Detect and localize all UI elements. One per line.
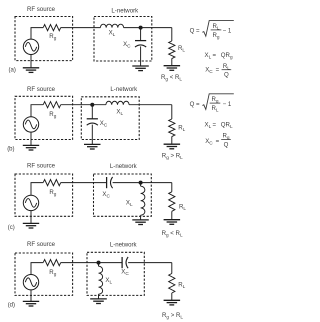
ground RL (a) — [164, 66, 181, 71]
equation XC (a) — [205, 63, 231, 79]
svg-text:Rg > RL: Rg > RL — [162, 312, 183, 320]
wire RL to ground (b) — [171, 137, 173, 145]
svg-text:(d): (d) — [8, 303, 15, 309]
AC source V (a) — [23, 39, 38, 54]
capacitor XC (b) — [87, 119, 98, 125]
wire node to XL (d) — [98, 263, 100, 267]
svg-text:Rg: Rg — [212, 32, 219, 40]
svg-text:Q =: Q = — [190, 28, 200, 35]
wire Rg to XC (c) — [61, 182, 107, 184]
wire node to XL (c) — [140, 183, 142, 187]
L-network box (d) — [87, 252, 144, 295]
svg-text:− 1: − 1 — [223, 101, 232, 108]
equation XC (b) — [205, 133, 231, 149]
wire down to RL (c) — [171, 183, 173, 192]
svg-text:XC: XC — [205, 67, 213, 75]
AC source V (b) — [23, 117, 38, 132]
wire source to Rg (b) — [31, 105, 43, 117]
svg-text:Rg: Rg — [49, 189, 56, 197]
svg-text:XL: XL — [109, 30, 116, 38]
svg-text:XL: XL — [205, 121, 212, 129]
svg-text:XC: XC — [121, 269, 129, 277]
ground RL (b) — [164, 144, 181, 149]
svg-text:XC: XC — [205, 138, 213, 146]
svg-text:Rg: Rg — [49, 33, 56, 41]
wire node to XC (b) — [91, 105, 93, 119]
svg-text:RL: RL — [178, 45, 185, 53]
ground RL (c) — [164, 220, 181, 225]
wire source to ground (d) — [30, 290, 32, 302]
resistor RL (a) — [169, 41, 175, 59]
wire XC to load (c) — [113, 182, 172, 184]
resistor RL (d) — [169, 274, 175, 293]
capacitor XC (c) — [107, 177, 113, 188]
wire down to RL (a) — [171, 28, 173, 41]
ground source (a) — [23, 68, 39, 73]
ground RL (d) — [164, 300, 181, 305]
wire XC to load (d) — [128, 262, 172, 264]
node junction (b) — [90, 103, 94, 107]
equation Q (b) — [190, 94, 234, 113]
RF source box (a) — [15, 17, 73, 61]
svg-text:(b): (b) — [7, 147, 14, 153]
equation XL (b) — [205, 121, 233, 129]
svg-text:Rg < RL: Rg < RL — [161, 74, 182, 82]
wire XC to ground (b) — [91, 125, 93, 145]
resistor RL (b) — [169, 119, 175, 137]
node junction (c) — [139, 181, 143, 185]
wire down to RL (b) — [171, 105, 173, 119]
svg-text:Rg: Rg — [222, 133, 229, 141]
RF source box (d) — [15, 253, 73, 295]
node junction (a) — [139, 26, 143, 30]
AC source V (d) — [23, 275, 38, 290]
svg-text:RF source: RF source — [27, 163, 56, 170]
svg-text:XC: XC — [123, 41, 131, 49]
ground XC (a) — [132, 66, 149, 71]
L-network box (c) — [94, 174, 152, 216]
svg-text:− 1: − 1 — [223, 28, 232, 35]
resistor Rg (d) — [43, 260, 61, 266]
capacitor XC (d) — [122, 257, 128, 268]
svg-text:XL: XL — [205, 52, 212, 60]
svg-text:=: = — [216, 138, 220, 145]
inductor XL (c) — [141, 186, 145, 215]
svg-text:Rg: Rg — [49, 111, 56, 119]
svg-text:RF source: RF source — [27, 241, 56, 248]
ground source (b) — [23, 145, 39, 150]
wire Rg to node (b) — [61, 104, 106, 106]
svg-text:XL: XL — [105, 277, 112, 285]
resistor Rg (b) — [43, 102, 61, 108]
svg-text:L-network: L-network — [110, 86, 138, 93]
svg-text:Rg: Rg — [49, 269, 56, 277]
wire source to Rg (d) — [31, 263, 43, 275]
svg-text:RL: RL — [212, 23, 219, 31]
svg-text:=: = — [213, 121, 217, 128]
wire XL to load (a) — [124, 27, 172, 29]
RF source box (b) — [15, 96, 73, 139]
resistor Rg (c) — [43, 180, 61, 186]
ground source (d) — [23, 301, 39, 306]
equation XL (a) — [205, 52, 233, 60]
inductor XL (d) — [99, 266, 103, 294]
wire RL to ground (a) — [171, 59, 173, 66]
wire Rg to XC (d) — [61, 262, 122, 264]
wire down to RL (d) — [171, 263, 173, 274]
svg-text:RF source: RF source — [27, 86, 56, 93]
wire source to ground (c) — [30, 211, 32, 224]
svg-text:Rg < RL: Rg < RL — [162, 230, 183, 238]
svg-text:XL: XL — [116, 108, 123, 116]
svg-text:RF source: RF source — [27, 6, 56, 13]
ground XL (d) — [90, 299, 107, 304]
ground XC (b) — [84, 144, 101, 149]
svg-text:XC: XC — [102, 191, 110, 199]
svg-text:(a): (a) — [9, 68, 16, 74]
svg-text:RL: RL — [179, 204, 186, 212]
svg-text:RL: RL — [223, 63, 230, 71]
wire XL to load (b) — [129, 104, 172, 106]
wire source to Rg (a) — [31, 28, 43, 39]
AC source V (c) — [23, 195, 38, 210]
svg-text:RL: RL — [178, 125, 185, 133]
ground XL (c) — [132, 220, 149, 225]
L-network box (a) — [94, 17, 152, 62]
wire source to Rg (c) — [31, 183, 43, 196]
wire source to ground (b) — [30, 132, 32, 145]
svg-text:L-network: L-network — [111, 8, 139, 15]
inductor XL (b) — [106, 101, 129, 104]
inductor XL (a) — [100, 24, 123, 27]
svg-text:(c): (c) — [8, 225, 15, 231]
node junction (d) — [97, 261, 101, 265]
svg-text:XC: XC — [100, 120, 108, 128]
wire node to XC (a) — [140, 28, 142, 41]
RF source box (c) — [15, 174, 73, 216]
resistor Rg (a) — [43, 25, 61, 31]
wire XC to ground (a) — [140, 46, 142, 66]
svg-text:Q: Q — [224, 142, 229, 149]
wire source to ground (a) — [30, 55, 32, 68]
svg-text:RL: RL — [211, 105, 218, 113]
svg-text:RL: RL — [178, 282, 185, 290]
wire Rg to XL (a) — [61, 27, 101, 29]
svg-text:=: = — [216, 67, 220, 74]
svg-text:Q: Q — [224, 72, 229, 79]
svg-text:=: = — [213, 52, 217, 59]
svg-text:QRg: QRg — [221, 52, 233, 60]
svg-text:Rg > RL: Rg > RL — [162, 152, 183, 160]
svg-text:QRL: QRL — [221, 121, 233, 129]
equation Q (a) — [190, 21, 234, 40]
L-network box (b) — [81, 97, 139, 140]
wire XL to ground (c) — [140, 215, 142, 220]
ground source (c) — [23, 223, 39, 228]
wire RL to ground (c) — [171, 211, 173, 219]
svg-text:Q =: Q = — [190, 101, 200, 108]
resistor RL (c) — [169, 192, 175, 211]
svg-text:Rg: Rg — [211, 96, 218, 104]
svg-text:XL: XL — [126, 200, 133, 208]
svg-text:L-network: L-network — [110, 242, 138, 249]
wire RL to ground (d) — [171, 293, 173, 300]
capacitor XC (a) — [135, 41, 146, 47]
wire XL to ground (d) — [98, 294, 100, 299]
svg-text:L-network: L-network — [110, 163, 138, 170]
